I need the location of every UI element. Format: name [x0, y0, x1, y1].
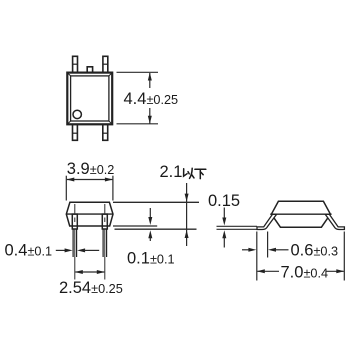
- front view left lead centerline upper: [74, 204, 76, 213]
- seating plane line: [115, 228, 197, 230]
- front view left lead shoulder: [72, 214, 77, 229]
- kanji 下: [195, 169, 206, 178]
- smd parting midline: [270, 213, 331, 215]
- smd right gull-wing lead: [325, 214, 344, 229]
- dim 0.15 down arrow: [223, 208, 225, 219]
- dim 4.4 arrowheads: [148, 73, 152, 81]
- dim 3.9 dimension line: [67, 179, 113, 181]
- pin1 indicator circle: [73, 110, 81, 118]
- smd left foot extension line: [256, 232, 258, 281]
- front view left lead center tick: [74, 218, 76, 223]
- dim 0.4 left arrow: [56, 249, 66, 251]
- pin top-right: [103, 56, 108, 72]
- front view right lead shoulder: [102, 214, 107, 229]
- top view package body inner outline: [71, 76, 109, 121]
- dim 0.6 left arrow: [242, 249, 250, 251]
- smd left bend extension line: [267, 232, 269, 258]
- front view right lead edges below body: [103, 229, 107, 257]
- front view parting midline: [66, 213, 113, 215]
- front view bottom edge extension line: [113, 225, 157, 227]
- svg-text:7.0±0.4: 7.0±0.4: [281, 264, 329, 282]
- pin bottom-right: [103, 124, 108, 140]
- dim 2.1 up arrowhead: [185, 230, 189, 238]
- pin top-left: [73, 56, 78, 72]
- front view top edge extension line right: [113, 201, 199, 203]
- front view left lead centerline lower: [74, 229, 76, 280]
- smd body hexagon: [271, 201, 330, 227]
- dim 2.1 down arrowhead: [185, 194, 189, 202]
- index tab bump: [87, 67, 92, 73]
- front view body hexagon: [66, 202, 113, 226]
- top view package body outer outline: [67, 73, 112, 125]
- dim 2.54 dimension line: [75, 271, 104, 273]
- kanji 以: [184, 168, 194, 178]
- smd right foot extension line: [343, 232, 345, 281]
- svg-text:0.4±0.1: 0.4±0.1: [5, 242, 53, 260]
- svg-text:2.54±0.25: 2.54±0.25: [59, 279, 123, 297]
- front view left lead edges below body: [73, 229, 77, 257]
- svg-text:0.1±0.1: 0.1±0.1: [127, 250, 175, 268]
- front view right lead centerline lower: [104, 229, 106, 280]
- dim 4.4 extension lines: [117, 72, 159, 124]
- corner chamfer lines: [67, 73, 112, 125]
- lead foot thickness extension lines: [217, 226, 258, 229]
- svg-text:4.4±0.25: 4.4±0.25: [124, 90, 179, 108]
- dim 0.4 right arrow: [77, 248, 85, 252]
- dim 7.0 dimension line: [257, 270, 279, 272]
- dim 0.6 right arrow: [268, 248, 276, 252]
- dim 4.4 dimension line: [149, 73, 151, 88]
- dim 2.1 leader line: [186, 183, 188, 246]
- front view right lead centerline upper: [104, 204, 106, 213]
- svg-text:3.9±0.2: 3.9±0.2: [67, 160, 115, 178]
- dim 0.1 up arrow: [148, 230, 152, 238]
- svg-text:0.6±0.3: 0.6±0.3: [291, 241, 339, 259]
- front view right lead center tick: [104, 218, 106, 223]
- svg-text:0.15: 0.15: [208, 192, 240, 210]
- pin bottom-left: [73, 124, 78, 140]
- svg-text:2.1: 2.1: [160, 163, 183, 181]
- dim 3.9 extension lines: [66, 176, 113, 201]
- dim 0.1 down arrow: [149, 208, 151, 218]
- dim 0.15 up arrow: [222, 230, 226, 238]
- smd left gull-wing lead: [257, 214, 277, 229]
